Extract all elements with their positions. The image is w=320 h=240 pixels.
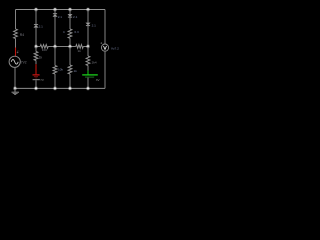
wire bottom rail (15, 87, 105, 89)
wire col5 mid (87, 26, 89, 47)
node bottom junction (68, 86, 72, 90)
wire below node F (69, 46, 71, 65)
svg-text:2.1: 2.1 (39, 25, 44, 29)
resistor R8 horizontal (76, 45, 84, 49)
diode D1 (pointing up) (34, 24, 38, 26)
wire col4 mid (69, 17, 71, 29)
svg-text:2.1: 2.1 (73, 15, 78, 19)
voltmeter M1 (101, 44, 108, 51)
wire mid rail segments (36, 45, 88, 47)
wire left column x=15 (15, 10, 17, 30)
ground main (14, 88, 16, 92)
wire battery to rail (87, 78, 89, 89)
svg-text:7V: 7V (40, 78, 44, 82)
node top junction G (86, 8, 90, 12)
wire col5 upper (87, 10, 89, 23)
wire red to ground (35, 64, 37, 74)
node bottom junction (34, 86, 38, 90)
wire below R6 (87, 66, 89, 71)
battery V2 plate (33, 79, 40, 81)
battery V3 plus plate green (82, 74, 98, 76)
node mid junction D (53, 44, 57, 48)
plus mark voltmeter (100, 42, 102, 44)
svg-text:2k4: 2k4 (92, 60, 97, 64)
resistor R5 (68, 65, 72, 74)
svg-text:1k: 1k (74, 69, 78, 73)
wire below R5 (69, 74, 71, 88)
wire top rail (16, 9, 106, 11)
node top junction E (68, 8, 72, 12)
resistor R3 (53, 66, 57, 75)
node top junction A (34, 8, 38, 12)
svg-text:R4: R4 (20, 33, 24, 37)
battery V3 minus plate (85, 76, 94, 78)
wire col4 upper (69, 10, 71, 15)
diode D3 (pointing down) (68, 14, 73, 17)
resistor R7 horizontal (40, 45, 48, 49)
svg-text:4: 4 (63, 30, 65, 34)
wire right column lower (104, 51, 106, 88)
node bottom junction (53, 86, 57, 90)
wire right column upper (104, 10, 106, 45)
resistor R4 (68, 29, 72, 38)
diode D4 (pointing down) (86, 23, 91, 26)
ground red (33, 74, 40, 76)
wire below source (14, 67, 16, 88)
wire col3 upper (54, 10, 56, 14)
wire below R2 (35, 61, 37, 65)
resistor R6 (86, 56, 90, 66)
wire below R1 (15, 39, 17, 48)
svg-text:1k: 1k (39, 56, 43, 60)
svg-text:10k: 10k (58, 68, 63, 72)
AC source V1 (9, 56, 20, 67)
wire col2 mid (35, 28, 37, 47)
wire below node B (35, 47, 37, 52)
svg-text:Vo7.2: Vo7.2 (111, 47, 119, 51)
svg-text:6.3: 6.3 (74, 30, 79, 34)
resistor R2 (34, 52, 38, 61)
wire battery to rail (35, 80, 37, 88)
diode D2 (pointing up) (53, 13, 57, 15)
node mid junction F (68, 44, 72, 48)
node bottom junction (86, 86, 90, 90)
wire col2 upper (35, 10, 37, 25)
wire green segment (87, 71, 89, 75)
svg-text:7V2: 7V2 (21, 60, 27, 64)
node bottom-left junction (13, 86, 17, 90)
svg-text:1k: 1k (78, 49, 82, 53)
resistor R1 (14, 29, 18, 39)
wire col3 mid (54, 17, 56, 47)
svg-text:100: 100 (42, 48, 47, 52)
svg-text:2.1: 2.1 (92, 24, 97, 28)
plus mark at source top (17, 51, 19, 53)
wire red segment to source (15, 48, 17, 57)
wire below node D (54, 46, 56, 65)
node mid junction B (34, 45, 38, 49)
wire below R3 (54, 74, 56, 88)
node mid junction H (86, 44, 90, 48)
wire below node H (87, 46, 89, 56)
svg-text:2.1: 2.1 (58, 15, 63, 19)
node top junction C (53, 8, 57, 12)
wire below R4 (69, 38, 71, 46)
